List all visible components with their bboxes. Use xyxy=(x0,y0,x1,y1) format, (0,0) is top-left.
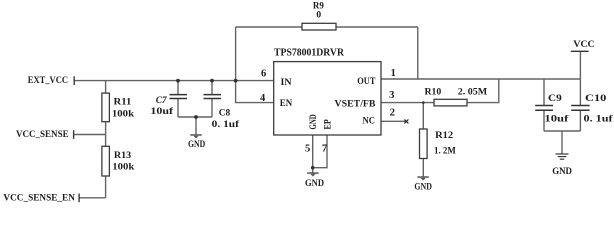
svg-text:R12: R12 xyxy=(435,131,453,141)
port VCC_SENSE xyxy=(16,130,74,140)
junction node R9/EN-rail xyxy=(234,79,238,83)
ground symbol earth C9 C10 xyxy=(552,154,572,177)
resistor R12 xyxy=(420,129,456,159)
wire R9 right vertical xyxy=(417,27,419,79)
capacitor C7 xyxy=(150,95,187,117)
svg-text:C8: C8 xyxy=(219,109,231,119)
junction node cap ground xyxy=(194,115,198,119)
svg-text:IN: IN xyxy=(281,78,292,88)
svg-text:C10: C10 xyxy=(585,94,607,104)
svg-text:R10: R10 xyxy=(425,88,442,98)
svg-text:0. 1uf: 0. 1uf xyxy=(584,115,614,125)
svg-text:GND: GND xyxy=(552,167,572,177)
junction node C7-rail xyxy=(176,79,180,83)
wire C8 branch xyxy=(211,81,213,95)
wire C10 bottom xyxy=(579,110,581,131)
wire VCC_SENSE xyxy=(74,134,106,136)
resistor R11 xyxy=(102,93,135,122)
svg-text:R11: R11 xyxy=(114,98,132,108)
ground symbol IC xyxy=(305,172,324,189)
svg-text:TPS78001DRVR: TPS78001DRVR xyxy=(274,48,345,59)
ground symbol R12 xyxy=(414,176,432,192)
resistor R10 xyxy=(425,88,488,106)
capacitor C10 xyxy=(571,94,613,124)
wire C9 branch xyxy=(543,79,545,106)
wire R12 to ground xyxy=(422,159,424,177)
svg-text:VCC_SENSE_EN: VCC_SENSE_EN xyxy=(3,193,75,203)
svg-text:R13: R13 xyxy=(114,151,132,161)
svg-text:10uf: 10uf xyxy=(150,107,174,117)
wire R9 top left segment xyxy=(236,26,302,28)
wire C9 bottom xyxy=(543,110,545,131)
wire ic ground stem xyxy=(312,168,314,173)
junction node pin5-pin7 xyxy=(311,166,315,170)
svg-text:GND: GND xyxy=(188,140,205,150)
wire cap ground stem xyxy=(195,117,197,134)
no-connect cross pin2 xyxy=(404,119,408,123)
port VCC_SENSE_EN xyxy=(3,193,79,203)
wire C10 branch xyxy=(579,79,581,106)
junction node R12-VSET xyxy=(422,101,425,104)
wire NC stub xyxy=(381,120,406,122)
wire C8 bottom xyxy=(211,99,213,118)
svg-text:GND: GND xyxy=(305,179,324,189)
svg-text:100k: 100k xyxy=(112,109,135,119)
svg-text:0: 0 xyxy=(316,10,321,20)
wire VCC_SENSE_EN xyxy=(79,197,106,199)
svg-text:EP: EP xyxy=(324,119,334,129)
svg-text:GND: GND xyxy=(309,114,319,129)
capacitor C9 xyxy=(535,94,569,124)
svg-text:100k: 100k xyxy=(112,163,135,173)
power VCC xyxy=(571,40,595,51)
capacitor C8 xyxy=(204,95,240,130)
wire pin5 down xyxy=(312,135,314,168)
wire C9-C10 join xyxy=(544,130,580,132)
resistor R9 xyxy=(302,1,336,30)
wire OUT rail xyxy=(381,78,580,80)
wire earth ground stem xyxy=(561,131,563,154)
wire pin7 down and left xyxy=(313,135,327,168)
ground symbol C7 C8 xyxy=(188,134,205,150)
svg-text:2: 2 xyxy=(390,107,395,118)
wire R10 to feedback node xyxy=(467,79,499,103)
svg-text:2. 05M: 2. 05M xyxy=(458,88,487,98)
svg-text:OUT: OUT xyxy=(357,77,376,87)
svg-text:1: 1 xyxy=(391,68,396,79)
resistor R13 xyxy=(102,146,135,176)
svg-text:3: 3 xyxy=(389,90,394,101)
wire R11 branch xyxy=(105,81,107,94)
op-amp U1 body TPS78001DRVR xyxy=(274,62,381,135)
svg-text:VCC_SENSE: VCC_SENSE xyxy=(16,130,69,140)
wire R11 to R13 xyxy=(105,122,107,147)
wire R9 left vertical / EN branch xyxy=(236,27,274,103)
svg-text:EXT_VCC: EXT_VCC xyxy=(28,76,68,86)
svg-text:C9: C9 xyxy=(548,94,562,104)
wire R13 down xyxy=(105,176,107,198)
wire VCC stem xyxy=(579,51,581,79)
svg-text:1. 2M: 1. 2M xyxy=(434,146,456,156)
port EXT_VCC xyxy=(28,76,75,86)
svg-text:7: 7 xyxy=(322,143,327,154)
junction node C8-rail xyxy=(210,79,214,83)
wire R12 branch down xyxy=(422,103,424,129)
wire R9 top right segment xyxy=(336,26,418,28)
wire C7 bottom xyxy=(177,99,179,118)
svg-text:NC: NC xyxy=(363,117,376,127)
wire C7 branch xyxy=(177,81,179,95)
svg-text:10uf: 10uf xyxy=(544,115,569,125)
wire VSET/FB to R10 xyxy=(381,102,434,104)
svg-text:0. 1uf: 0. 1uf xyxy=(212,120,240,130)
svg-text:VSET/FB: VSET/FB xyxy=(335,99,377,109)
wire EXT_VCC rail to IN xyxy=(74,80,274,82)
svg-text:5: 5 xyxy=(305,143,310,154)
svg-text:GND: GND xyxy=(414,183,432,193)
svg-text:VCC: VCC xyxy=(573,40,594,50)
svg-text:4: 4 xyxy=(260,93,266,104)
wire C7-C8 join xyxy=(178,116,212,118)
svg-text:C7: C7 xyxy=(156,96,168,106)
svg-text:6: 6 xyxy=(261,68,266,79)
svg-text:EN: EN xyxy=(280,99,293,109)
